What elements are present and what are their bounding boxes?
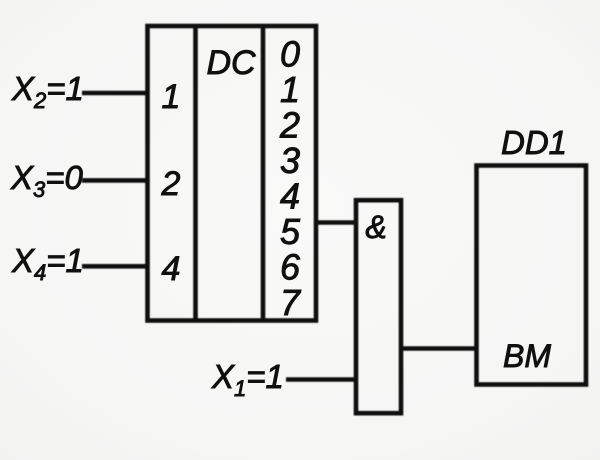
svg-text:DC: DC (206, 44, 256, 82)
svg-text:&: & (365, 209, 386, 245)
svg-text:X4=1: X4=1 (11, 242, 84, 285)
svg-text:4: 4 (162, 250, 181, 288)
svg-text:X1=1: X1=1 (211, 358, 284, 401)
svg-text:BM: BM (503, 338, 551, 374)
svg-text:DD1: DD1 (501, 124, 567, 161)
svg-text:X3=0: X3=0 (10, 159, 84, 202)
svg-text:1: 1 (162, 78, 181, 116)
svg-text:2: 2 (161, 165, 181, 203)
svg-text:7: 7 (280, 282, 302, 323)
svg-text:X2=1: X2=1 (11, 70, 84, 113)
